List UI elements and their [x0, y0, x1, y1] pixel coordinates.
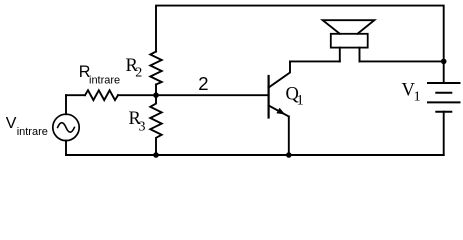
resistor Rintrare	[85, 90, 118, 100]
svg-text:2: 2	[198, 73, 208, 94]
svg-text:1: 1	[297, 93, 304, 109]
svg-text:intrare: intrare	[89, 75, 120, 87]
battery V1	[428, 83, 460, 112]
node dot emitter	[286, 152, 292, 158]
speaker	[323, 20, 375, 34]
svg-text:intrare: intrare	[17, 126, 48, 138]
source Vintrare	[65, 95, 67, 114]
svg-text:2: 2	[135, 65, 142, 80]
wire node 2 row	[66, 94, 85, 96]
node dot battery top	[441, 59, 447, 65]
svg-text:V: V	[6, 115, 17, 132]
wire speaker to battery node	[360, 60, 444, 62]
wire collector to speaker	[290, 60, 340, 62]
svg-text:1: 1	[414, 89, 421, 104]
wire node 2 to base	[118, 94, 269, 96]
wire battery negative lead	[443, 112, 445, 155]
transistor Q1	[268, 76, 270, 118]
wire R2 to node 2	[155, 85, 157, 96]
emitter arrow	[276, 108, 285, 115]
wire top rail	[156, 6, 444, 62]
resistor R2	[150, 52, 161, 85]
svg-text:3: 3	[139, 119, 146, 134]
wire right vertical to battery	[443, 61, 445, 83]
resistor R3	[150, 95, 161, 155]
wire bottom rail	[66, 154, 444, 156]
node dot 2	[153, 92, 159, 98]
node dot bottom R3	[153, 152, 159, 158]
